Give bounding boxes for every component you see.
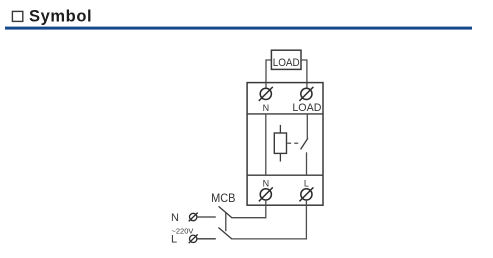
switch upper lead <box>306 114 308 138</box>
svg-text:MCB: MCB <box>211 191 235 205</box>
svg-text:L: L <box>171 234 177 246</box>
svg-text:Symbol: Symbol <box>29 8 92 26</box>
label ~220V <box>172 226 194 235</box>
svg-text:N: N <box>263 178 270 188</box>
MCB pole 2 blade <box>218 228 232 240</box>
terminal screw N top-left <box>259 87 273 101</box>
label L supply <box>171 234 177 246</box>
svg-text:L: L <box>304 178 309 188</box>
coil top lead <box>279 125 281 133</box>
label MCB <box>211 191 235 205</box>
heading underline rule <box>5 27 472 30</box>
mechanical linkage dashed <box>287 142 300 144</box>
coil bottom lead <box>279 153 281 161</box>
MCB trip link <box>225 212 227 231</box>
relay unit outer case <box>247 83 323 206</box>
label N bottom <box>263 178 270 188</box>
label N top <box>263 103 270 113</box>
wire: supply L to MCB pole 2 <box>197 238 216 240</box>
case divider upper <box>247 113 323 115</box>
case divider lower <box>247 174 323 176</box>
terminal screw LOAD top-right <box>299 87 313 101</box>
wire: supply N to MCB pole 1 <box>197 216 216 218</box>
wire: N bus through middle section <box>265 114 267 175</box>
wire: bottom N terminal to MCB pole 1 <box>232 200 266 218</box>
label L bottom <box>304 178 309 188</box>
terminal screw N bottom-left <box>259 187 273 201</box>
terminal screw L bottom-right <box>299 187 313 201</box>
svg-text:LOAD: LOAD <box>273 57 300 69</box>
MCB pole 1 blade <box>219 206 232 217</box>
switch lower lead <box>306 152 308 175</box>
heading text Symbol <box>29 8 92 26</box>
load box LOAD <box>271 50 301 69</box>
svg-text:N: N <box>171 212 179 224</box>
switch blade <box>301 138 308 149</box>
relay coil <box>274 133 286 153</box>
wire: load box right lead down to terminal LOAD <box>301 60 307 89</box>
label N supply <box>171 212 179 224</box>
supply terminal N <box>189 213 198 222</box>
wire: bottom L terminal to MCB pole 2 <box>232 200 307 239</box>
label LOAD top <box>292 102 321 114</box>
svg-text:LOAD: LOAD <box>292 102 321 114</box>
heading bullet square <box>12 11 22 21</box>
svg-text:N: N <box>263 103 270 113</box>
wire: load box left lead down to terminal N <box>266 60 271 89</box>
supply terminal L <box>189 234 198 243</box>
